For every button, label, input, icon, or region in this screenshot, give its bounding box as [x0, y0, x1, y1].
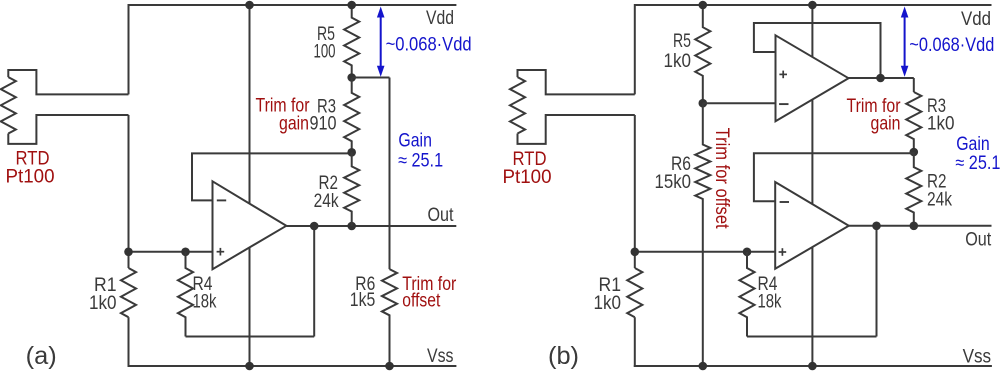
- wire: [518, 115, 635, 144]
- wire: [634, 115, 636, 268]
- wire: [518, 70, 635, 94]
- svg-text:Pt100: Pt100: [6, 167, 55, 188]
- resistor R1 (a): [121, 268, 136, 317]
- svg-text:≈ 25.1: ≈ 25.1: [398, 150, 443, 171]
- wire: [192, 153, 352, 200]
- svg-text:1k0: 1k0: [927, 114, 955, 135]
- svg-text:Vss: Vss: [427, 346, 454, 367]
- node R4 top (a): [181, 248, 190, 257]
- svg-text:Pt100: Pt100: [503, 167, 552, 188]
- node R5 top (b): [699, 1, 708, 10]
- wire: [128, 115, 130, 268]
- resistor R3 (b): [906, 92, 921, 152]
- wire: [389, 78, 391, 270]
- svg-text:910: 910: [310, 114, 337, 135]
- wire: [129, 4, 457, 6]
- svg-text:1k0: 1k0: [89, 293, 117, 314]
- resistor R6 (b): [695, 103, 710, 366]
- measure arrow (a): [380, 16, 382, 68]
- wire: [635, 251, 775, 253]
- wire: [849, 77, 914, 79]
- node output feedback (b): [872, 222, 881, 231]
- op-amp U2 (b): [776, 35, 849, 121]
- svg-text:15k0: 15k0: [655, 172, 692, 193]
- node R5 bottom (a): [347, 73, 356, 82]
- wire: [128, 4, 130, 94]
- node R1 top (a): [124, 248, 133, 257]
- wire: [634, 317, 636, 367]
- wire: [634, 4, 636, 94]
- node R2 bottom (a): [347, 222, 356, 231]
- svg-text:100: 100: [314, 42, 336, 63]
- svg-text:Gain: Gain: [398, 130, 432, 151]
- wire: [128, 317, 130, 367]
- wire: [286, 225, 456, 227]
- node R6 bottom (a): [385, 362, 394, 371]
- svg-text:Vdd: Vdd: [426, 8, 454, 29]
- resistor RTD (a): [1, 77, 16, 133]
- wire: [747, 336, 877, 338]
- svg-text:1k0: 1k0: [594, 293, 622, 314]
- node supply top (b): [808, 1, 817, 10]
- resistor R5 (a): [344, 5, 359, 78]
- wire: [8, 70, 128, 94]
- node supply top (a): [245, 1, 254, 10]
- wire: [8, 115, 128, 144]
- svg-text:~0.068·Vdd: ~0.068·Vdd: [909, 35, 994, 56]
- wire: [249, 5, 251, 366]
- op-amp U3 (b): [775, 182, 849, 269]
- wire: [849, 225, 992, 227]
- resistor R3 (a): [344, 78, 359, 153]
- wire: [703, 102, 776, 104]
- resistor R4 (b): [739, 252, 754, 337]
- wire: [129, 251, 213, 253]
- svg-text:1k0: 1k0: [664, 51, 692, 72]
- svg-text:(a): (a): [26, 342, 57, 370]
- resistor RTD (b): [510, 77, 525, 133]
- node R3 bottom (b): [910, 148, 919, 157]
- node output (a): [310, 222, 319, 231]
- node U2 output (b): [876, 74, 885, 83]
- node supply bottom (a): [245, 362, 254, 371]
- svg-text:18k: 18k: [193, 292, 217, 313]
- svg-text:Vdd: Vdd: [961, 9, 991, 30]
- resistor R1 (b): [627, 268, 642, 317]
- wire: [754, 153, 914, 201]
- node R3 bottom (a): [347, 148, 356, 157]
- svg-text:offset: offset: [402, 291, 441, 312]
- resistor R6 (a): [382, 269, 397, 366]
- svg-text:24k: 24k: [314, 191, 339, 212]
- resistor R4 (a): [178, 252, 193, 337]
- wire: [811, 5, 813, 366]
- wire: [352, 77, 390, 79]
- node R6 bottom (b): [699, 362, 708, 371]
- svg-text:Out: Out: [428, 205, 455, 226]
- measure arrow (b): [904, 16, 906, 68]
- svg-text:~0.068·Vdd: ~0.068·Vdd: [386, 35, 472, 56]
- wire: [128, 365, 457, 367]
- wire: [313, 226, 315, 337]
- wire: [876, 226, 878, 337]
- wire: [635, 4, 992, 6]
- node supply bottom (b): [808, 362, 817, 371]
- node R1 top (b): [631, 248, 640, 257]
- node R5 top (a): [347, 1, 356, 10]
- svg-text:R5: R5: [673, 31, 691, 52]
- resistor R2 (a): [344, 152, 359, 226]
- wire: [913, 78, 915, 92]
- node R2 bottom (b): [910, 222, 919, 231]
- svg-text:1k5: 1k5: [350, 290, 376, 311]
- resistor R2 (b): [906, 152, 921, 226]
- svg-text:Vss: Vss: [963, 347, 992, 368]
- resistor R5 (b): [695, 5, 710, 103]
- node R5 bottom (b): [699, 99, 708, 108]
- svg-text:gain: gain: [871, 114, 901, 135]
- svg-text:Gain: Gain: [956, 134, 990, 155]
- svg-text:≈ 25.1: ≈ 25.1: [955, 153, 1000, 174]
- svg-text:Trim for offset: Trim for offset: [711, 128, 732, 230]
- svg-text:Out: Out: [965, 230, 992, 251]
- wire: [634, 365, 992, 367]
- svg-text:24k: 24k: [927, 190, 952, 211]
- wire: [186, 336, 315, 338]
- node R4 top (b): [743, 248, 752, 257]
- svg-text:gain: gain: [279, 114, 309, 135]
- wire: [754, 23, 881, 78]
- op-amp U1 (a): [213, 181, 287, 269]
- svg-text:18k: 18k: [758, 292, 782, 313]
- svg-text:(b): (b): [548, 342, 579, 370]
